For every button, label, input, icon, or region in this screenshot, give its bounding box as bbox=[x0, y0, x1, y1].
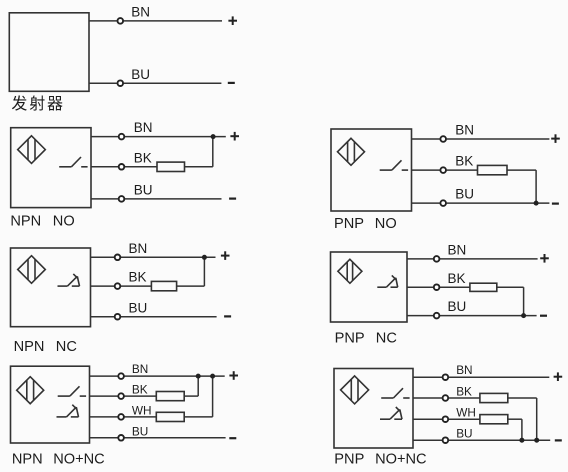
svg-text:BN: BN bbox=[131, 5, 150, 20]
svg-text:发射器: 发射器 bbox=[11, 95, 64, 113]
svg-text:BK: BK bbox=[132, 383, 148, 397]
svg-text:BN: BN bbox=[134, 120, 153, 135]
svg-text:BU: BU bbox=[455, 187, 474, 202]
svg-text:BU: BU bbox=[132, 424, 148, 438]
svg-text:NC: NC bbox=[56, 339, 77, 355]
svg-text:WH: WH bbox=[132, 403, 152, 417]
svg-text:NO: NO bbox=[375, 216, 397, 232]
svg-text:BN: BN bbox=[456, 363, 472, 377]
svg-text:PNP: PNP bbox=[334, 452, 364, 468]
svg-text:NPN: NPN bbox=[14, 339, 45, 355]
svg-text:BU: BU bbox=[456, 427, 472, 441]
svg-text:BK: BK bbox=[129, 270, 147, 285]
svg-text:BN: BN bbox=[455, 123, 474, 138]
svg-text:BN: BN bbox=[129, 241, 148, 256]
svg-text:BN: BN bbox=[132, 362, 148, 376]
svg-text:WH: WH bbox=[456, 406, 476, 420]
svg-text:BU: BU bbox=[448, 299, 467, 314]
svg-text:NO+NC: NO+NC bbox=[375, 452, 427, 468]
svg-text:BK: BK bbox=[134, 150, 152, 165]
svg-text:NC: NC bbox=[376, 331, 397, 347]
svg-text:BU: BU bbox=[134, 183, 153, 198]
svg-text:NO: NO bbox=[53, 214, 75, 230]
svg-text:PNP: PNP bbox=[335, 331, 365, 347]
svg-text:BN: BN bbox=[448, 243, 467, 258]
svg-text:BK: BK bbox=[455, 154, 473, 169]
svg-text:BK: BK bbox=[456, 385, 472, 399]
svg-text:NPN: NPN bbox=[12, 451, 43, 467]
svg-text:BU: BU bbox=[129, 300, 148, 315]
svg-text:NO+NC: NO+NC bbox=[53, 451, 104, 467]
svg-text:PNP: PNP bbox=[334, 216, 364, 232]
svg-text:BU: BU bbox=[131, 67, 150, 82]
svg-text:BK: BK bbox=[448, 271, 466, 286]
svg-text:NPN: NPN bbox=[10, 214, 41, 230]
